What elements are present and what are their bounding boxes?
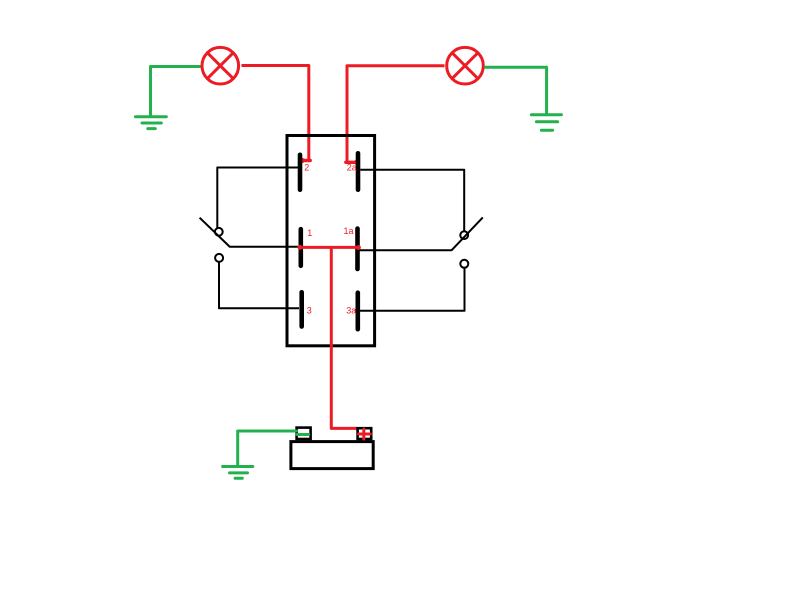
pin 2a (356, 153, 361, 189)
svg-text:2a: 2a (347, 162, 357, 172)
battery negative mark (-) (297, 433, 309, 436)
wire: black from contact A up to pin 2 (217, 168, 298, 229)
svg-text:1a: 1a (344, 226, 354, 236)
pin 3a (355, 293, 360, 330)
wire: green from lamp L2 to right ground (486, 67, 547, 114)
wire: red bus pin 1 to pin 1a (300, 246, 359, 249)
wire: black common to pin 1 (230, 246, 299, 248)
wire: black from pin 2a to contact C (360, 170, 464, 231)
wire: black from contact B down to pin 3 (219, 262, 299, 308)
battery negative terminal (297, 428, 311, 439)
switch body (287, 136, 375, 346)
battery positive terminal (358, 428, 372, 439)
pin 2 (298, 155, 303, 190)
wire: black from contact D down to pin 3a (360, 268, 465, 311)
contact C (right, to pin 2a) (460, 231, 468, 239)
lamp L1 (202, 47, 239, 84)
switch lever (right) (451, 217, 483, 250)
pin 1a (355, 229, 360, 269)
pin 3 (299, 292, 304, 326)
wire: red from bus down to battery + (331, 247, 357, 428)
wire: red stub onto pin 2a (346, 161, 357, 164)
ground (battery) (223, 467, 253, 479)
wire: red from lamp L1 to pin 2 (242, 66, 309, 161)
pin 1 (298, 229, 303, 266)
junction dot on pin 2a (354, 160, 359, 165)
svg-text:3a: 3a (346, 305, 356, 315)
contact D (right, to pin 3a) (460, 260, 468, 268)
wire: green from battery - to bottom ground (238, 431, 297, 465)
ground (right) (531, 115, 561, 131)
contact A (left, to pin 2) (215, 228, 223, 236)
junction dot on pin 2 (299, 158, 304, 163)
battery BT1 body (291, 442, 373, 469)
svg-text:2: 2 (304, 162, 309, 172)
ground (left) (136, 117, 167, 129)
contact B (left, to pin 3) (215, 254, 223, 262)
wire: red stub onto pin 2 (302, 159, 311, 162)
wire: black common to pin 1a (360, 249, 452, 251)
battery positive mark (+) (359, 429, 371, 439)
wire: red from lamp L2 to pin 2a (347, 66, 445, 163)
svg-text:3: 3 (307, 305, 312, 315)
wire: green from lamp L1 to left ground (151, 67, 202, 117)
lamp L2 (447, 47, 484, 84)
junction dot on pin 1 (297, 245, 302, 250)
switch lever (left) (200, 218, 230, 247)
svg-text:1: 1 (307, 228, 312, 238)
junction dot on pin 1a (356, 245, 361, 250)
